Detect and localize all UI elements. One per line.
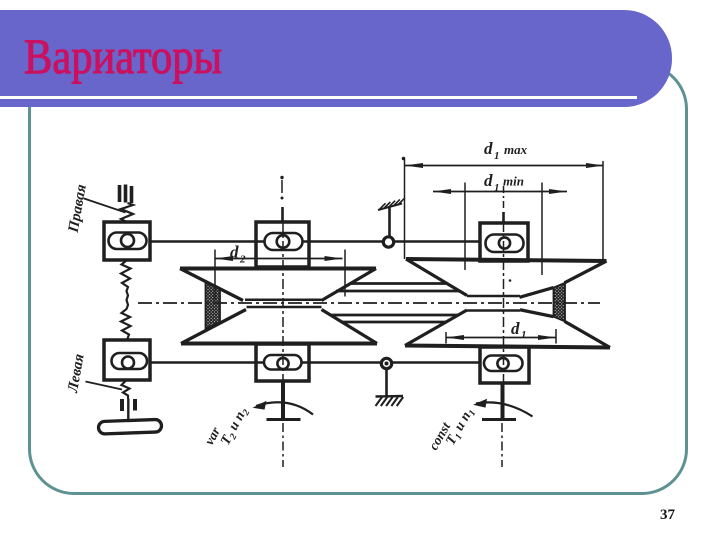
dimension d1 min (433, 171, 567, 275)
rotation arrow P2 (253, 401, 314, 415)
pulley P1 hub (467, 296, 520, 311)
link rod bottom (150, 361, 480, 364)
bearing block far-left top (104, 222, 150, 260)
svg-text:d: d (484, 171, 493, 190)
label T2 n2 var (201, 405, 252, 449)
bearing block P1 bottom (480, 347, 529, 383)
pulley P2 upper disc (180, 269, 376, 301)
rotation arrow P1 (473, 399, 533, 417)
svg-text:Правая: Правая (66, 183, 90, 235)
pulley P2 hub (245, 300, 322, 307)
link rod top (150, 240, 480, 243)
bearing block P2 bottom (256, 344, 309, 381)
leader Правая (84, 199, 126, 213)
handle (98, 419, 161, 434)
pivot top (383, 208, 393, 248)
handle stem (127, 399, 129, 424)
bearing block far-left bottom (104, 340, 150, 380)
banner (0, 10, 672, 107)
svg-text:1: 1 (521, 329, 527, 341)
svg-text:min: min (503, 174, 524, 189)
screw thread middle (121, 260, 131, 340)
shaft P1 end bar (482, 418, 516, 421)
page number (660, 507, 675, 524)
svg-text:1: 1 (494, 150, 500, 162)
bearing block P1 top (480, 223, 528, 261)
shaft P2 axis tail (282, 423, 284, 467)
svg-text:var: var (201, 424, 223, 448)
svg-text:1: 1 (494, 182, 500, 194)
dimension d2 (215, 243, 345, 301)
svg-text:Левая: Левая (65, 352, 88, 394)
belt cross-section left (hatched) (206, 281, 221, 329)
support top (hatched) (378, 198, 405, 210)
screw clamp top (120, 185, 132, 204)
belt axis horizontal (dash-dot) (138, 302, 600, 304)
pivot bottom (381, 358, 391, 396)
svg-text:d: d (484, 139, 493, 158)
svg-text:d: d (230, 243, 239, 262)
svg-text:max: max (504, 142, 528, 157)
leader Левая (86, 382, 123, 390)
banner white stripe (0, 96, 637, 100)
content box (28, 63, 688, 495)
shaft P1 lower (501, 383, 505, 419)
shaft P1 axis tail (501, 423, 503, 467)
pulley P2 lower disc (181, 310, 377, 344)
svg-text:T2 и n2: T2 и n2 (218, 405, 252, 449)
axis P1 vertical (dash-dot) (503, 186, 505, 383)
clamp bars lower (122, 399, 135, 411)
svg-text:2: 2 (239, 254, 246, 266)
label T1 n1 const (426, 405, 479, 452)
shaft P2 lower (281, 381, 285, 419)
svg-text:d: d (511, 319, 520, 338)
screw thread lower (Левая) (122, 381, 130, 399)
shaft P2 end bar (267, 418, 301, 421)
bearing block P2 top (256, 222, 309, 267)
speck (509, 279, 512, 282)
support bottom (hatched) (376, 396, 404, 406)
screw thread upper (Правая) (121, 203, 133, 223)
axis P2 vertical (dash-dot) (280, 176, 283, 381)
pulley P1 upper disc (406, 259, 607, 297)
pulley P1 lower disc (405, 310, 610, 348)
dimension d1 (446, 319, 556, 344)
dimension d1 max (402, 139, 604, 261)
belt runs (332, 284, 460, 323)
belt cross-section right (hatched) (554, 283, 566, 322)
title (24, 34, 222, 79)
